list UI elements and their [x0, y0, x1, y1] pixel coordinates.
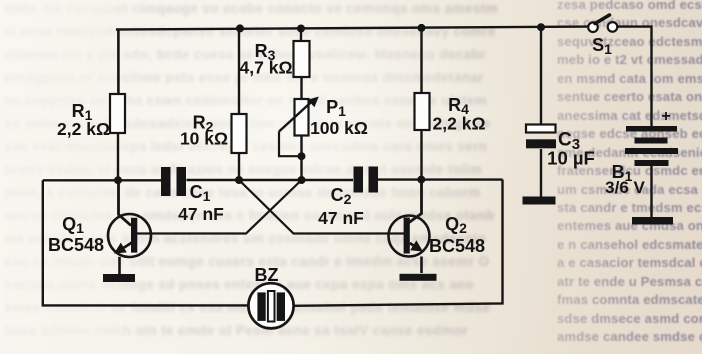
svg-text:100 kΩ: 100 kΩ — [310, 118, 368, 138]
resistor R1 — [110, 94, 125, 133]
wire cross-coupling R2 node to Q2 base — [239, 180, 404, 234]
wire top rail — [116, 27, 588, 30]
junction P1 wiper node — [298, 152, 306, 160]
wire R1 bottom to mid rail — [117, 133, 119, 180]
wire mid rail middle segment — [187, 179, 354, 181]
junction mid rail R4/C2/Q2 collector — [417, 176, 425, 184]
wire P1 bottom to mid rail — [300, 136, 302, 181]
capacitor C3 (electrolytic) — [526, 125, 556, 149]
svg-text:BZ: BZ — [255, 265, 279, 285]
wire outer box bottom-right and right — [294, 180, 503, 306]
svg-text:BC548: BC548 — [429, 236, 485, 256]
wire R2 bottom to mid rail — [238, 153, 240, 180]
wire R3 top vertical — [300, 29, 302, 42]
junction top rail R2 — [236, 24, 244, 32]
svg-text:Q2: Q2 — [445, 214, 467, 236]
svg-text:C2: C2 — [331, 185, 352, 207]
junction top rail R4 — [418, 24, 426, 32]
svg-text:+: + — [661, 108, 670, 125]
switch S1 — [588, 15, 617, 32]
junction top rail R3 — [297, 25, 305, 33]
capacitor C1 — [161, 167, 186, 196]
potentiometer P1 wiper arrow — [279, 97, 319, 132]
wire B1 bottom stem — [650, 166, 652, 217]
svg-text:Q1: Q1 — [62, 214, 84, 236]
svg-text:3/6 V: 3/6 V — [605, 178, 645, 197]
wire P1 wiper tie to bottom terminal — [279, 132, 302, 157]
buzzer BZ — [248, 283, 293, 328]
transistor Q2 — [389, 180, 430, 273]
ground bar under C3 — [523, 197, 556, 205]
junction mid rail Q1 collector — [114, 176, 122, 184]
wire R4 bottom to mid rail — [420, 130, 422, 180]
svg-text:47 nF: 47 nF — [178, 204, 224, 224]
svg-text:P1: P1 — [326, 97, 346, 119]
svg-text:C1: C1 — [190, 182, 211, 204]
svg-text:47 nF: 47 nF — [318, 208, 364, 228]
wire mid rail right segment — [378, 178, 503, 180]
wire R3 bottom to P1 — [300, 77, 302, 99]
svg-text:4,7 kΩ: 4,7 kΩ — [240, 58, 293, 78]
wire C3 bottom stem — [540, 149, 542, 197]
resistor R3 — [294, 41, 310, 77]
svg-text:10 µF: 10 µF — [547, 148, 595, 169]
wire R2 top vertical — [238, 29, 240, 114]
wire S1 to top-right corner down to battery — [618, 27, 652, 126]
resistor R4 — [415, 93, 430, 130]
junction mid rail R2/C1 — [235, 176, 243, 184]
wire C3 top vertical — [540, 27, 542, 125]
junction mid rail P1/C2 — [298, 176, 306, 184]
wire mid rail left segment — [43, 179, 161, 181]
resistor R2 — [232, 114, 247, 153]
wire left supply vertical (top corner down to R1) — [117, 29, 120, 94]
svg-text:2,2 kΩ: 2,2 kΩ — [433, 114, 486, 134]
battery B1 — [625, 126, 678, 166]
junction top rail C3 — [537, 23, 545, 31]
ground bar under Q2 emitter — [400, 274, 437, 281]
capacitor C2 — [354, 167, 379, 193]
svg-text:2,2 kΩ: 2,2 kΩ — [57, 119, 110, 139]
wire outer box left and bottom-left — [43, 180, 249, 305]
ground bar under B1 — [632, 217, 673, 225]
potentiometer P1 body — [295, 99, 309, 136]
ground bar under Q1 emitter — [103, 274, 135, 282]
transistor Q1 — [108, 180, 151, 274]
wire cross-coupling P1 node to Q1 base — [137, 180, 302, 234]
svg-text:10 kΩ: 10 kΩ — [180, 129, 228, 149]
svg-text:S1: S1 — [592, 35, 612, 57]
wire R4 top vertical — [420, 28, 422, 93]
svg-text:BC548: BC548 — [48, 235, 104, 255]
